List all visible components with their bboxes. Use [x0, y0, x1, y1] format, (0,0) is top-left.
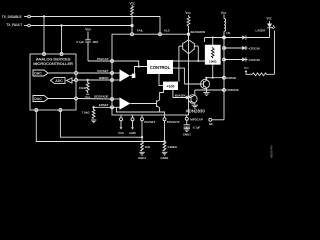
- svg-text:1kΩ: 1kΩ: [145, 145, 151, 149]
- svg-text:09330-040: 09330-040: [270, 145, 274, 158]
- svg-text:FB: FB: [226, 31, 230, 35]
- svg-text:ADC: ADC: [55, 79, 63, 83]
- svg-text:100Ω: 100Ω: [209, 60, 217, 64]
- svg-text:ESD9B: ESD9B: [226, 76, 236, 80]
- svg-text:CONTROL: CONTROL: [150, 65, 171, 70]
- svg-text:GND1: GND1: [160, 156, 168, 160]
- svg-text:ERSET: ERSET: [99, 103, 109, 107]
- svg-text:ADN2830: ADN2830: [186, 109, 206, 114]
- svg-text:▪CR2150: ▪CR2150: [248, 46, 260, 50]
- svg-text:TX_FAULT: TX_FAULT: [6, 23, 22, 27]
- svg-text:0.1µF: 0.1µF: [193, 125, 201, 129]
- svg-text:MICROCONTROLLER: MICROCONTROLLER: [33, 61, 73, 66]
- svg-text:GND1: GND1: [183, 132, 191, 136]
- svg-text:0.1µF: 0.1µF: [77, 40, 85, 44]
- svg-text:CR8612E: CR8612E: [226, 88, 239, 92]
- svg-text:PAVSET: PAVSET: [144, 120, 155, 124]
- svg-text:4.99kΩ: 4.99kΩ: [167, 145, 177, 149]
- svg-text:PAVSET: PAVSET: [97, 69, 108, 73]
- svg-text:MPDCAP: MPDCAP: [190, 117, 203, 121]
- svg-text:DAC: DAC: [34, 71, 42, 75]
- svg-text:7.5kΩ: 7.5kΩ: [82, 111, 91, 115]
- svg-text:FAIL: FAIL: [137, 29, 143, 33]
- svg-text:TX_DISABLE: TX_DISABLE: [2, 15, 22, 19]
- svg-text:ALS: ALS: [164, 29, 170, 33]
- svg-text:NR1: NR1: [93, 40, 99, 44]
- svg-text:PAVCAP: PAVCAP: [97, 57, 109, 61]
- svg-text:DAC: DAC: [34, 97, 42, 101]
- svg-text:DEGRADE: DEGRADE: [94, 94, 109, 98]
- svg-text:IBIASMON: IBIASMON: [191, 30, 205, 34]
- svg-text:10kΩ: 10kΩ: [79, 86, 87, 90]
- svg-text:VCC: VCC: [118, 131, 125, 135]
- svg-text:GND: GND: [129, 131, 135, 135]
- svg-text:▪CR2150: ▪CR2150: [248, 58, 260, 62]
- svg-text:IBMON: IBMON: [99, 76, 109, 80]
- svg-text:IBIASIN: IBIASIN: [175, 93, 186, 97]
- svg-text:LASER: LASER: [256, 28, 267, 32]
- svg-text:+100: +100: [166, 85, 174, 89]
- svg-text:PAVSET2: PAVSET2: [167, 120, 180, 124]
- svg-text:GND1: GND1: [138, 156, 146, 160]
